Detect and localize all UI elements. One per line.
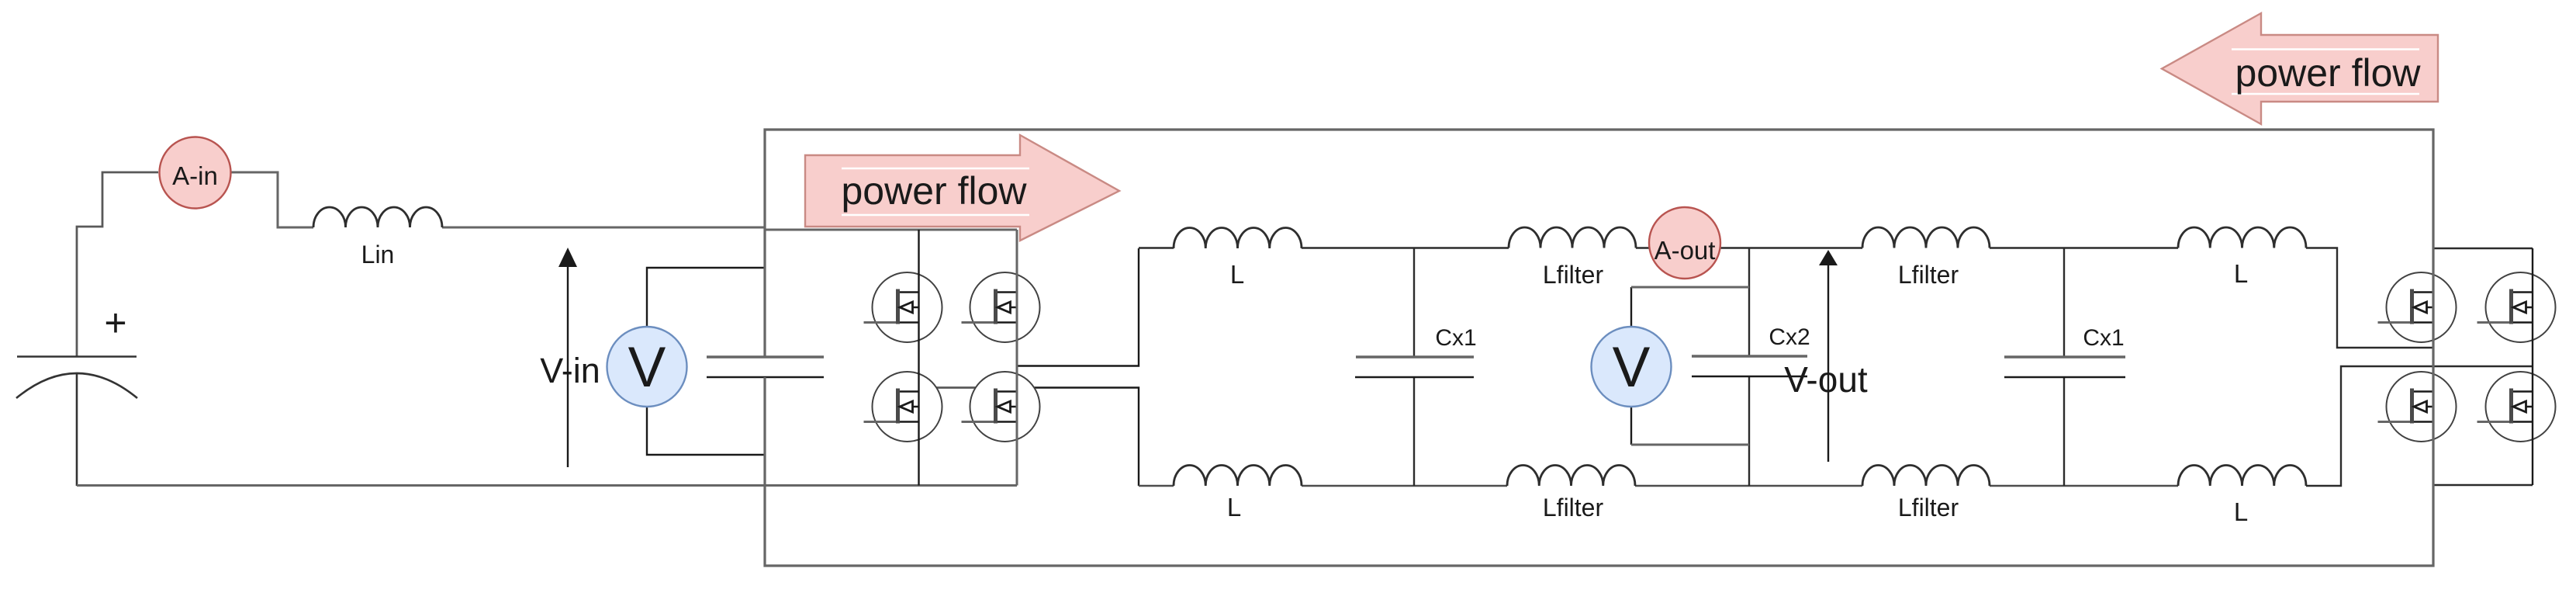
battery B1 arc (16, 373, 137, 398)
wire: filter top run section 1 (1139, 248, 2433, 348)
transistor Q4 (962, 372, 1040, 442)
voltmeter V2 (1592, 327, 1672, 407)
ammeter A-out (1649, 207, 1720, 279)
wire: H-bridge 1 right rail (1016, 230, 1018, 486)
wire: voltmeter V1 bottom bracket (647, 407, 765, 455)
svg-text:Lfilter: Lfilter (1898, 261, 1959, 289)
wire: H-bridge 1 middle rail (918, 230, 919, 486)
svg-text:+: + (104, 301, 126, 345)
wire: bottom return rail (battery to H-bridge 1) (77, 484, 1017, 487)
svg-text:V-out: V-out (1784, 359, 1868, 400)
arrow V-out (1819, 250, 1838, 462)
transistor Q5 (2378, 272, 2457, 342)
transistor Q7 (2378, 372, 2457, 442)
wire: H-bridge 1 lower output (gate-level link, behind mosfets) (919, 386, 1036, 389)
converter box (765, 130, 2433, 566)
capacitor Cx1 first: leads (1355, 248, 1474, 486)
arrow V-in (558, 248, 577, 467)
inductor L top section1 (1174, 227, 1302, 248)
transistor Q6 (2477, 272, 2556, 342)
inductor Lfilter top2 (1862, 227, 1990, 248)
wire: H-bridge 1 upper output to filter (1017, 248, 1139, 366)
inductor Lin (313, 207, 442, 227)
wire: filter bottom run (1139, 366, 2533, 486)
capacitor C-in plates (707, 357, 824, 377)
wire: H-bridge 1 lower output to filter (1035, 388, 1139, 487)
voltmeter V1 (607, 327, 687, 407)
battery B1 plate (17, 355, 137, 358)
svg-text:L: L (2234, 259, 2248, 288)
svg-text:V: V (628, 336, 666, 399)
wire: voltmeter V2 bottom bracket (1631, 407, 1749, 445)
transistor Q8 (2477, 372, 2556, 442)
svg-text:Lin: Lin (361, 241, 395, 269)
svg-text:Lfilter: Lfilter (1543, 494, 1604, 521)
svg-text:power flow: power flow (2235, 51, 2422, 95)
transistor Q1 (864, 272, 942, 342)
battery B1 lead down (76, 373, 78, 486)
wire: voltmeter V1 top bracket (647, 268, 765, 327)
wire: H-bridge 2 top wire (2433, 248, 2533, 249)
wire: H-bridge 2 right rail (2532, 248, 2533, 485)
svg-text:A-in: A-in (172, 161, 218, 190)
svg-text:A-out: A-out (1655, 236, 1716, 265)
capacitor Cx1 second: leads (2004, 248, 2125, 487)
inductor Lfilter top1 (1509, 227, 1636, 248)
svg-text:L: L (1227, 493, 1241, 521)
transistor Q2 (962, 272, 1040, 342)
wire: voltmeter V2 top bracket (1631, 287, 1749, 327)
wire: A-in right to Lin (231, 172, 313, 227)
svg-text:Cx1: Cx1 (1435, 325, 1476, 351)
svg-text:V-in: V-in (540, 351, 600, 390)
inductor L bottom section1 (1174, 465, 1302, 486)
ammeter A-in (160, 137, 231, 209)
svg-text:L: L (1230, 260, 1244, 289)
inductor Lfilter bottom2 (1862, 466, 1990, 487)
capacitor Cx2: leads (1692, 248, 1807, 487)
svg-text:Cx2: Cx2 (1769, 324, 1810, 350)
svg-text:L: L (2234, 497, 2248, 526)
wire: battery positive up to A-in jog (77, 172, 158, 356)
svg-text:Lfilter: Lfilter (1543, 261, 1604, 289)
inductor L bottom right (2178, 465, 2306, 486)
wire: top input rail from Lin to H-bridge 1 right rail (442, 227, 1017, 230)
svg-text:V: V (1613, 336, 1651, 399)
power flow arrow (leftward) (2162, 13, 2438, 124)
inductor L top right (2178, 227, 2306, 248)
wire: H-bridge 2 bottom wire (2433, 484, 2533, 486)
svg-text:Cx1: Cx1 (2083, 325, 2124, 351)
inductor Lfilter bottom1 (1507, 465, 1635, 486)
power flow arrow (rightward) (805, 135, 1119, 241)
transistor Q3 (864, 372, 942, 442)
svg-text:Lfilter: Lfilter (1898, 494, 1959, 521)
svg-text:power flow: power flow (842, 169, 1028, 213)
